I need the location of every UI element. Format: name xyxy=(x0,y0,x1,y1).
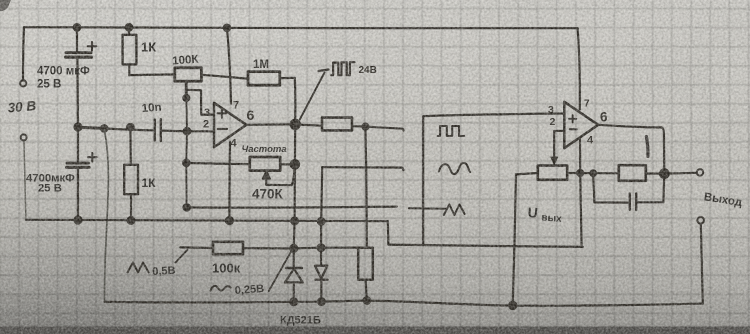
annotation square wave symbol row 1 xyxy=(438,126,464,136)
wire top rail down to U2 pin7 xyxy=(578,28,580,109)
wire op-amp U2 non-inverting input row xyxy=(423,114,564,117)
wire left input drop xyxy=(23,27,24,80)
wire R2 to R3 xyxy=(201,75,247,79)
wire top supply rail xyxy=(24,27,578,28)
wire U2 inverting input arrow to R6 wiper xyxy=(551,131,564,165)
diode D1 KD521B xyxy=(285,248,303,305)
wire U2 output xyxy=(598,125,669,178)
resistor R2 100K feedback xyxy=(175,68,202,81)
terminal output bottom xyxy=(697,217,704,224)
terminal 30V plus xyxy=(20,80,26,86)
diode D2 KD521B xyxy=(315,248,328,305)
wire output node column down xyxy=(290,124,298,252)
terminal 30V minus xyxy=(21,134,27,140)
annotation square wave 24V symbol xyxy=(319,62,355,75)
potentiometer R6 U-vyh xyxy=(538,166,583,180)
wire bottom rail xyxy=(105,301,703,306)
resistor R7 xyxy=(619,165,646,181)
wire rail D2 xyxy=(388,245,582,247)
wire 10n to op-amp U1 inverting input xyxy=(184,128,214,135)
wire R5 right xyxy=(352,124,404,131)
stray pencil mark xyxy=(646,137,648,157)
resistor R5 xyxy=(322,118,352,131)
wire sine row xyxy=(322,167,403,170)
wire R3 to output node xyxy=(280,78,296,122)
wire U1 pin4 to rail D xyxy=(226,142,233,225)
annotation sine wave 0.25V xyxy=(211,252,291,291)
wire rail B to pot xyxy=(186,163,250,164)
annotation sine wave symbol row 2 xyxy=(439,163,471,174)
wire pot to output node column xyxy=(280,160,299,168)
wire rail E left xyxy=(180,246,213,249)
wire bottom rail up to output terminal bottom xyxy=(701,224,703,304)
terminal output top xyxy=(697,169,703,175)
annotation triangle wave symbol row C xyxy=(444,204,465,215)
wire U1 pin7 to top rail xyxy=(224,25,231,104)
wire rail C triangle row xyxy=(187,206,397,209)
capacitor C2 4700uF xyxy=(67,124,97,224)
capacitor C3 10n xyxy=(155,119,187,141)
resistor R3 1M xyxy=(248,72,280,86)
resistor R8 100K bottom xyxy=(213,242,243,254)
wire zigzag to op-amp U1 non-inverting input xyxy=(186,90,213,115)
wire rail F mid xyxy=(580,170,619,176)
wire R7 to output terminal xyxy=(646,172,697,175)
wire R1 to R2 xyxy=(129,73,174,76)
op-amp U2 xyxy=(564,102,598,148)
resistor R1 1K top xyxy=(123,24,137,75)
potentiometer R4 470K xyxy=(250,157,295,185)
wire column x366 down to R9 xyxy=(365,127,366,247)
wire rail D xyxy=(26,220,388,221)
capacitor C1 4700uF xyxy=(66,24,97,127)
capacitor C4 loop xyxy=(593,173,664,210)
annotation axis tick triangle row xyxy=(409,207,446,209)
wire 30V minus to bottom rail xyxy=(24,141,26,219)
wire output row xyxy=(295,125,322,126)
resistor R1b 1K vertical xyxy=(124,127,138,224)
wire U2 pin4 down through rail F to rail D2 xyxy=(580,139,582,247)
annotation triangle wave 0.5V xyxy=(128,250,188,273)
annotation arrow to square wave xyxy=(300,73,325,120)
wire rail E right xyxy=(243,247,358,250)
wire R2 bottom stub xyxy=(183,81,189,101)
wire rail A to rail D slant link xyxy=(104,130,108,302)
op-amp U1 xyxy=(214,103,246,147)
wire U1 output xyxy=(246,120,299,129)
wire column x516 down xyxy=(509,174,516,309)
wire rail D jog down xyxy=(387,221,390,244)
wire rail F left xyxy=(516,173,538,174)
wire column x423 down to rail D2 xyxy=(422,116,424,245)
wire sine column down xyxy=(318,167,325,251)
wire rail A minus input rail xyxy=(78,124,153,132)
resistor R9 vertical xyxy=(358,248,373,304)
wire stub to rails vertical xyxy=(183,96,190,210)
